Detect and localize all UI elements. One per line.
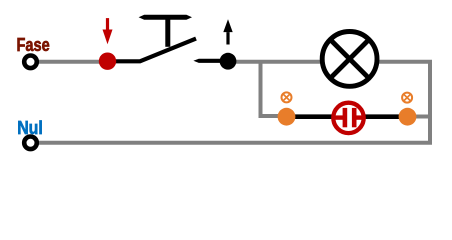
- lamp E1 (circle with X): [322, 32, 377, 87]
- wire switch to lamp: [228, 60, 322, 64]
- screw symbol right (orange circled X): [402, 93, 412, 103]
- wire right fitting terminal to right vertical: [408, 115, 431, 119]
- switch actuator stem: [165, 17, 170, 47]
- wire fitting black line: [287, 114, 408, 119]
- red arrow (press): [103, 18, 113, 44]
- switch fixed contact stub: [193, 59, 228, 63]
- wire branch junction down to left fitting terminal: [261, 60, 285, 116]
- switch movable contact (red dot): [99, 53, 116, 70]
- svg-text:Fase: Fase: [17, 34, 50, 55]
- Fase terminal: [24, 56, 37, 69]
- switch fixed contact (black dot): [220, 53, 237, 70]
- switch actuator bar: [139, 15, 192, 20]
- lamp fitting symbol: [332, 103, 365, 133]
- Nul terminal: [24, 137, 37, 150]
- wire Fase terminal to switch: [31, 60, 111, 64]
- fitting terminal left (orange dot): [278, 108, 296, 126]
- switch S1 lever: [108, 39, 197, 62]
- fitting terminal right (orange dot): [399, 108, 417, 126]
- wire lamp right, right vertical, Nul bottom run: [31, 62, 431, 143]
- svg-text:Nul: Nul: [17, 117, 43, 138]
- black arrow (release): [223, 19, 232, 44]
- screw symbol left (orange circled X): [282, 92, 292, 102]
